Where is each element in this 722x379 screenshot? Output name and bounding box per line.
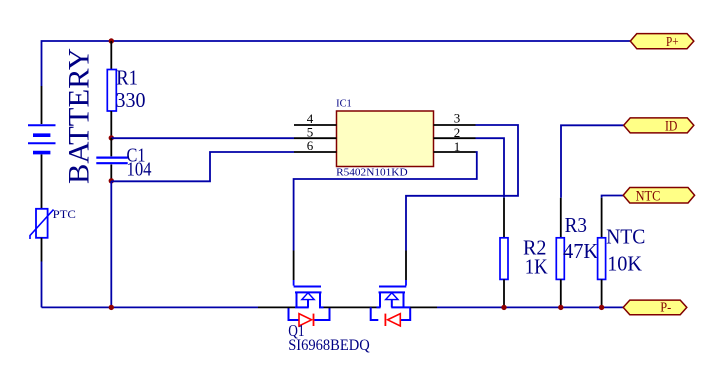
- svg-text:3: 3: [454, 111, 461, 126]
- capacitor C1: [96, 138, 151, 181]
- node junction R3 bottom: [558, 305, 563, 310]
- wire C1 junction down to bottom rail: [110, 181, 112, 307]
- svg-text:2: 2: [454, 125, 461, 140]
- resistor R1: [107, 41, 145, 138]
- battery B1: [28, 86, 56, 209]
- wire pin 1 to Q1 gate: [294, 152, 477, 251]
- svg-text:SI6968BEDQ: SI6968BEDQ: [288, 337, 370, 354]
- port flag P-: [623, 300, 687, 316]
- node junction R1/C1 top: [109, 135, 114, 140]
- transistor Q1 (left MOSFET): [258, 251, 377, 355]
- pin 3 stub: [434, 124, 476, 126]
- body diode of Q1a: [299, 314, 312, 326]
- wire to pin 5: [111, 137, 294, 139]
- wire NTC flag to RT: [602, 196, 624, 198]
- svg-text:P-: P-: [660, 301, 671, 316]
- wire pin 3 to Q2 gate: [406, 125, 518, 251]
- thermistor PTC: [30, 207, 76, 262]
- svg-text:NTC: NTC: [636, 189, 661, 205]
- resistor R2: [500, 198, 548, 308]
- svg-text:6: 6: [307, 138, 314, 153]
- node junction R2 bottom: [501, 305, 506, 310]
- svg-text:R1: R1: [116, 65, 138, 89]
- port flag ID: [624, 118, 694, 134]
- svg-text:10K: 10K: [607, 252, 642, 276]
- transistor Q2 (right MOSFET): [371, 251, 437, 327]
- svg-text:R3: R3: [565, 213, 587, 237]
- node junction NTC bottom: [599, 305, 604, 310]
- wire bottom rail left: [42, 306, 259, 308]
- wire pin 2 to R2: [476, 138, 505, 198]
- op-amp U1 / IC1 body: [336, 98, 433, 178]
- wire bottom rail right: [437, 306, 623, 308]
- svg-text:PTC: PTC: [53, 207, 76, 221]
- svg-text:P+: P+: [666, 35, 679, 50]
- pin 6 stub: [294, 151, 337, 153]
- svg-text:1K: 1K: [525, 255, 548, 279]
- resistor R3: [556, 198, 598, 308]
- pin 4 stub: [294, 124, 337, 126]
- resistor NTC 10K: [598, 198, 646, 308]
- svg-text:IC1: IC1: [336, 98, 352, 109]
- pin 2 stub: [434, 137, 476, 139]
- svg-text:1: 1: [454, 139, 461, 154]
- svg-text:330: 330: [116, 88, 146, 112]
- pin 1 stub: [434, 151, 476, 153]
- wire top rail P+: [42, 41, 631, 86]
- svg-text:R5402N101KD: R5402N101KD: [336, 167, 408, 179]
- wire ID to R3: [561, 125, 624, 198]
- node junction top rail: [109, 38, 114, 43]
- svg-text:104: 104: [127, 159, 152, 181]
- svg-text:ID: ID: [665, 118, 678, 134]
- node junction bottom rail left: [109, 305, 114, 310]
- wire PTC to bottom rail: [41, 262, 43, 308]
- node junction C1 bottom: [109, 178, 114, 183]
- wire C1 junction to pin 6: [111, 152, 294, 181]
- port flag P+: [630, 34, 694, 50]
- svg-text:47K: 47K: [563, 239, 598, 263]
- svg-text:BATTERY: BATTERY: [63, 48, 96, 184]
- pin 5 stub: [294, 137, 337, 139]
- svg-text:NTC: NTC: [606, 225, 645, 249]
- body diode of Q1b: [388, 314, 401, 326]
- port flag NTC: [623, 188, 694, 205]
